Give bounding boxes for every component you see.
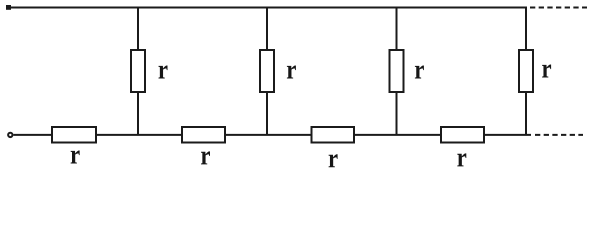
label r (resistor r3) [415,66,424,79]
wire: resistor r1 to bottom rail [137,92,139,135]
label r (resistor r4) [542,65,551,78]
wire: resistor r8 to right, bottom rail solid [484,134,531,136]
wire: terminal B to resistor r5 [14,134,53,136]
label r (resistor r1) [159,66,168,79]
resistor r3 (vertical) [390,50,404,92]
wire: top rail dashed continuation [530,7,587,9]
wire: top rail to resistor r2 [266,8,268,51]
label r (resistor r7) [329,154,338,167]
label r (resistor r2) [287,66,296,79]
resistor r7 (horizontal series) [312,127,355,143]
wire: resistor r5 to resistor r6 [96,134,182,136]
wire: resistor r2 to bottom rail [266,92,268,135]
resistor r4 (vertical) [519,50,533,92]
wire: top rail to resistor r1 [137,8,139,51]
label r (resistor r5) [71,151,80,164]
wire: resistor r6 to resistor r7 [225,134,312,136]
resistor r6 (horizontal series) [182,127,225,143]
resistor r8 (horizontal series) [441,127,484,143]
wire: bottom rail dashed continuation [535,134,583,136]
resistor r5 (horizontal series) [52,127,96,143]
label r (resistor r8) [457,153,466,166]
wire: resistor r4 to bottom rail [525,92,527,135]
wire: resistor r7 to resistor r8 [354,134,441,136]
resistor r1 (vertical) [131,50,145,92]
terminal B (bottom-left open circle) [8,133,12,137]
label r (resistor r6) [201,151,210,164]
wire: top rail solid [10,7,527,9]
wire: top rail to resistor r3 [396,8,398,51]
wire: top rail to resistor r4 [525,8,527,51]
terminal A (top-left solid square) [6,5,11,10]
resistor r2 (vertical) [260,50,274,92]
wire: resistor r3 to bottom rail [396,92,398,135]
